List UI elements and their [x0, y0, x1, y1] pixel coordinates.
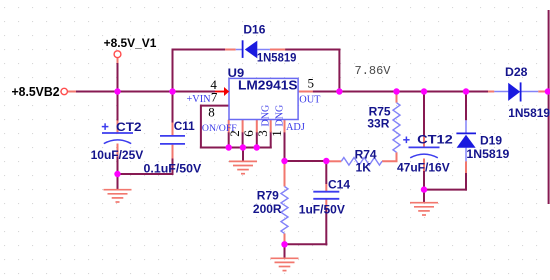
- svg-text:DNG: DNG: [275, 105, 286, 127]
- svg-text:+VIN: +VIN: [187, 94, 212, 105]
- svg-text:1N5819: 1N5819: [508, 106, 550, 120]
- svg-text:R79: R79: [257, 188, 279, 202]
- svg-text:DNG: DNG: [260, 105, 271, 127]
- svg-text:47uF/16V: 47uF/16V: [397, 160, 450, 174]
- svg-text:C14: C14: [328, 177, 350, 191]
- svg-text:33R: 33R: [367, 117, 389, 131]
- svg-text:1K: 1K: [356, 161, 372, 175]
- svg-text:5: 5: [308, 75, 315, 90]
- svg-text:2: 2: [227, 130, 242, 137]
- svg-text:3: 3: [255, 130, 270, 137]
- svg-text:CT2: CT2: [116, 120, 142, 134]
- svg-text:ADJ: ADJ: [286, 122, 305, 133]
- svg-text:D16: D16: [243, 23, 265, 37]
- svg-text:OUT: OUT: [299, 95, 321, 106]
- svg-text:200R: 200R: [253, 202, 282, 216]
- svg-text:10uF/25V: 10uF/25V: [91, 148, 144, 162]
- svg-text:8: 8: [208, 104, 215, 119]
- svg-text:D28: D28: [505, 65, 528, 79]
- svg-text:C11: C11: [174, 119, 195, 133]
- svg-text:LM2941S: LM2941S: [238, 77, 298, 92]
- svg-text:6: 6: [241, 130, 256, 137]
- svg-text:0.1uF/50V: 0.1uF/50V: [144, 162, 202, 176]
- svg-text:R74: R74: [355, 148, 377, 162]
- svg-text:CT12: CT12: [417, 132, 453, 146]
- svg-text:7.86V: 7.86V: [355, 64, 392, 78]
- svg-text:1N5819: 1N5819: [466, 147, 509, 161]
- svg-text:1: 1: [269, 130, 284, 137]
- svg-text:+8.5V_V1: +8.5V_V1: [104, 36, 157, 50]
- svg-text:D19: D19: [480, 133, 502, 147]
- svg-text:7: 7: [211, 90, 218, 105]
- svg-text:+8.5VB2: +8.5VB2: [12, 84, 60, 99]
- svg-text:1uF/50V: 1uF/50V: [299, 203, 345, 217]
- svg-text:1N5819: 1N5819: [257, 50, 297, 64]
